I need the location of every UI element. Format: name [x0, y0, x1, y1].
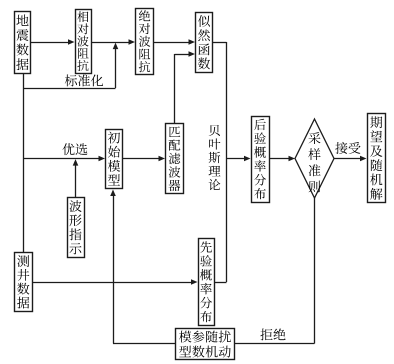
wire 匹配滤波器 up and right into 似然函数 with arrow — [175, 51, 196, 123]
process box 相对波阻抗 — [76, 10, 92, 74]
process box 先验概率分布 — [199, 239, 215, 326]
process box 后验概率分布 — [252, 117, 270, 203]
wire 优选: junction to 初始模型 with arrow — [24, 156, 106, 162]
wire 地震数据 down to 测井数据 — [23, 73, 25, 253]
wire diamond to 期望及随机解 with arrow (接受) — [334, 156, 367, 162]
label 接受 — [335, 142, 360, 154]
wire 先验概率分布 right into Bayes trunk — [214, 282, 227, 284]
wire 似然函数 right then down (Bayes trunk) — [213, 42, 227, 282]
wire 绝对波阻抗 to 似然函数 with arrow — [154, 39, 196, 45]
wire 相对波阻抗 to 绝对波阻抗 with arrow — [91, 39, 135, 45]
wire 波形指示 up-arrow into 优选 line — [73, 159, 79, 197]
wire Bayes trunk to 后验概率分布 with arrow — [227, 156, 251, 162]
process box 绝对波阻抗 — [136, 9, 154, 75]
wire diamond down-left to 模型参数随机扰动 (拒绝) — [235, 198, 315, 344]
label 标准化 — [65, 74, 103, 86]
wire 模型参数随机扰动 left then up into 初始模型 with arrow — [110, 190, 175, 344]
process box 匹配滤波器 — [166, 124, 184, 194]
wire 后验概率分布 to diamond with arrow — [269, 156, 295, 162]
wire 标准化 feedback: down-right-up with arrow into impedance line — [24, 43, 119, 89]
process box 模型参数随机扰动 — [176, 329, 235, 360]
process box 期望及随机解 — [368, 114, 386, 203]
process box 地震数据 — [15, 12, 31, 74]
process box 测井数据 — [15, 253, 33, 312]
wire 测井数据 to 先验概率分布 with arrow — [32, 279, 198, 285]
wire 地震数据 to 相对波阻抗 with arrow — [31, 39, 75, 45]
label 优选 — [62, 143, 87, 155]
process box 波形指示 — [68, 198, 85, 258]
label 拒绝 — [260, 329, 285, 341]
process box 似然函数 — [196, 13, 213, 73]
label 贝叶斯理论 — [209, 125, 221, 190]
decision diamond 采样准则 — [295, 119, 334, 198]
process box 初始模型 — [106, 130, 123, 189]
wire 初始模型 to 匹配滤波器 with arrow — [123, 156, 166, 162]
